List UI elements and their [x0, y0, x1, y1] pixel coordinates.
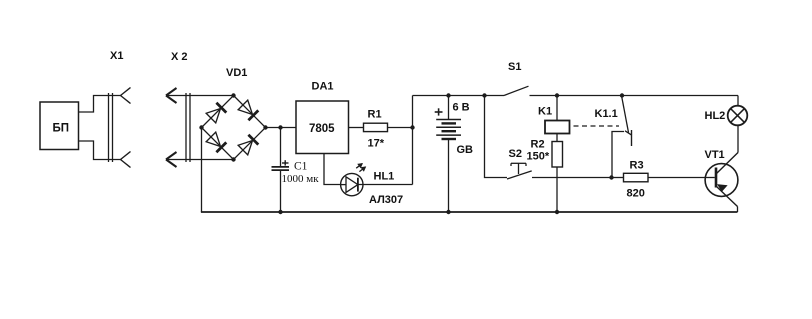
svg-text:R3: R3	[630, 160, 644, 172]
svg-text:VT1: VT1	[705, 149, 725, 161]
svg-text:GB: GB	[457, 144, 474, 156]
svg-text:S2: S2	[509, 148, 522, 160]
svg-text:K1.1: K1.1	[595, 108, 618, 120]
svg-text:X1: X1	[110, 50, 123, 62]
svg-text:820: 820	[627, 188, 645, 200]
svg-text:HL1: HL1	[374, 171, 395, 183]
svg-text:S1: S1	[508, 61, 521, 73]
svg-text:R1: R1	[368, 109, 382, 121]
svg-text:АЛ307: АЛ307	[369, 194, 403, 206]
svg-text:7805: 7805	[309, 123, 335, 135]
svg-text:R2: R2	[531, 139, 545, 151]
svg-text:C1: C1	[294, 161, 308, 173]
svg-text:DA1: DA1	[312, 81, 334, 93]
svg-text:VD1: VD1	[226, 67, 247, 79]
svg-text:1000 мк: 1000 мк	[282, 173, 320, 185]
svg-text:HL2: HL2	[705, 110, 726, 122]
svg-text:K1: K1	[538, 106, 552, 118]
svg-text:6 В: 6 В	[453, 102, 470, 114]
svg-text:17*: 17*	[368, 138, 385, 150]
svg-text:150*: 150*	[527, 151, 550, 163]
svg-text:X 2: X 2	[171, 51, 188, 63]
svg-text:БП: БП	[53, 123, 70, 135]
